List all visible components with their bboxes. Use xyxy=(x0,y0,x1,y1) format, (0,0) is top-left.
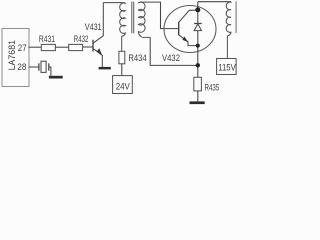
ground (R435) xyxy=(190,101,205,104)
damper diode triangle xyxy=(194,24,201,31)
flyback primary coil xyxy=(226,2,231,59)
V432 emitter xyxy=(179,35,198,46)
svg-text:V432: V432 xyxy=(162,53,180,63)
damper diode cathode bar xyxy=(194,23,202,25)
wire secondary top to V432 base xyxy=(140,2,179,29)
resistor R431 xyxy=(41,44,55,50)
flyback core xyxy=(235,1,237,33)
ground (V431 emitter) xyxy=(99,67,111,70)
svg-text:R432: R432 xyxy=(74,34,89,44)
V432 base bar xyxy=(178,22,180,35)
output transistor V432 envelope circle xyxy=(164,6,216,53)
svg-text:LA7681: LA7681 xyxy=(7,40,17,70)
transformer core xyxy=(131,2,133,34)
wire pin 27 to R431 xyxy=(29,46,42,48)
damper diode line (collector-emitter) xyxy=(197,2,199,78)
ground (crystal) xyxy=(49,76,63,79)
svg-text:R431: R431 xyxy=(39,34,55,44)
crystal resonator (pin 28) xyxy=(39,61,49,72)
resistor R432 xyxy=(69,44,83,50)
junction dot emitter rail node xyxy=(196,63,200,67)
supply box 24V xyxy=(113,76,133,94)
svg-text:27: 27 xyxy=(18,43,27,53)
transformer T secondary winding xyxy=(138,2,150,37)
transistor V431 xyxy=(93,3,103,67)
svg-text:V431: V431 xyxy=(85,22,102,32)
wire pin 28 to crystal xyxy=(29,66,39,68)
supply box 115V xyxy=(217,59,237,75)
svg-text:24V: 24V xyxy=(116,81,131,92)
svg-text:115V: 115V xyxy=(218,61,236,72)
wire R435 to ground xyxy=(197,91,199,102)
wire secondary bottom return to emitter node xyxy=(150,37,198,65)
resistor R434 xyxy=(119,51,125,64)
resistor R435 xyxy=(194,77,202,91)
wire R434 to 24V box xyxy=(121,64,123,76)
wire top rail right xyxy=(198,1,231,3)
junction dot emitter node xyxy=(196,44,200,48)
wire R432 to V431 base xyxy=(83,46,93,48)
IC U1 LA7681 box xyxy=(2,29,29,87)
V432 collector xyxy=(179,10,198,22)
svg-text:R435: R435 xyxy=(205,83,220,93)
wire R431 to R432 xyxy=(55,46,68,48)
svg-text:28: 28 xyxy=(17,62,26,72)
wire top rail left xyxy=(103,2,124,4)
svg-text:R434: R434 xyxy=(128,53,146,63)
junction dot collector node xyxy=(195,7,200,12)
transformer T primary winding xyxy=(120,3,126,52)
wire crystal to ground xyxy=(49,67,51,76)
